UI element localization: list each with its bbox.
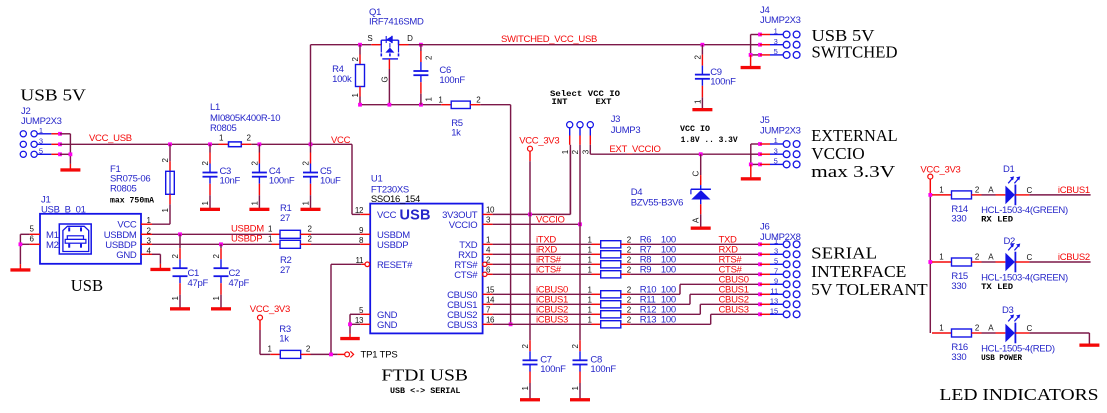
svg-text:G: G: [381, 77, 390, 83]
svg-text:LED INDICATORS: LED INDICATORS: [939, 385, 1098, 404]
svg-text:BZV55-B3V6: BZV55-B3V6: [631, 198, 683, 209]
svg-text:SWITCHED_VCC_USB: SWITCHED_VCC_USB: [501, 34, 597, 45]
svg-text:IRF7416SMD: IRF7416SMD: [369, 17, 424, 28]
svg-text:330: 330: [951, 213, 966, 224]
svg-text:1k: 1k: [451, 127, 461, 138]
svg-text:D4: D4: [631, 187, 643, 198]
svg-text:CBUS3: CBUS3: [447, 320, 477, 331]
svg-text:47pF: 47pF: [229, 278, 250, 289]
svg-text:R0805: R0805: [210, 123, 237, 134]
svg-text:max 750mA: max 750mA: [110, 195, 155, 205]
svg-text:100nF: 100nF: [590, 364, 616, 375]
svg-text:U1: U1: [371, 174, 383, 185]
svg-text:11: 11: [355, 256, 363, 265]
svg-text:15: 15: [486, 285, 495, 294]
svg-text:VCCIO: VCCIO: [536, 214, 565, 225]
svg-text:JUMP2X3: JUMP2X3: [21, 116, 62, 127]
svg-text:3: 3: [39, 136, 43, 145]
svg-text:100nF: 100nF: [710, 77, 736, 88]
svg-text:JUMP2X8: JUMP2X8: [760, 232, 801, 243]
svg-text:SSO16_154: SSO16_154: [371, 194, 420, 205]
svg-text:VCC_3V3: VCC_3V3: [920, 165, 960, 176]
svg-text:FTDI USB: FTDI USB: [381, 366, 468, 385]
svg-text:5V TOLERANT: 5V TOLERANT: [811, 280, 928, 299]
svg-text:3: 3: [774, 146, 778, 155]
svg-text:10nF: 10nF: [220, 176, 241, 187]
svg-text:VCC_USB: VCC_USB: [89, 133, 132, 144]
svg-text:27: 27: [280, 265, 290, 276]
svg-text:max 3.3V: max 3.3V: [811, 162, 896, 181]
svg-text:INTERFACE: INTERFACE: [811, 262, 906, 281]
svg-text:TX LED: TX LED: [981, 282, 1013, 292]
svg-text:USBDP: USBDP: [231, 234, 262, 245]
svg-text:1.8V .. 3.3V: 1.8V .. 3.3V: [681, 136, 738, 145]
svg-text:VCC: VCC: [331, 135, 351, 146]
svg-text:USB 5V: USB 5V: [20, 85, 86, 104]
svg-text:INT: INT: [552, 97, 568, 107]
svg-text:3: 3: [774, 37, 778, 46]
svg-text:J6: J6: [760, 222, 769, 233]
svg-text:EXTERNAL: EXTERNAL: [811, 126, 898, 145]
svg-text:JUMP2X3: JUMP2X3: [760, 125, 801, 136]
svg-text:CTS#: CTS#: [454, 270, 478, 281]
svg-text:12: 12: [355, 206, 364, 215]
svg-text:GND: GND: [116, 250, 137, 261]
svg-text:VCCIO: VCCIO: [449, 220, 478, 231]
svg-text:5: 5: [774, 47, 778, 56]
svg-text:15: 15: [770, 306, 778, 315]
svg-text:D2: D2: [1004, 236, 1016, 247]
svg-text:S: S: [367, 34, 372, 43]
svg-text:CBUS3: CBUS3: [719, 304, 749, 315]
svg-text:5: 5: [774, 256, 778, 265]
svg-text:D: D: [407, 34, 413, 43]
svg-text:VCC IO: VCC IO: [680, 124, 710, 134]
svg-text:VCC_3V3: VCC_3V3: [519, 136, 559, 147]
svg-text:J3: J3: [611, 114, 620, 125]
svg-text:USB POWER: USB POWER: [981, 353, 1023, 363]
svg-text:TP1 TPS: TP1 TPS: [361, 350, 398, 361]
svg-text:C: C: [1027, 253, 1033, 262]
svg-text:iCBUS1: iCBUS1: [1058, 185, 1090, 196]
svg-text:100nF: 100nF: [540, 364, 566, 375]
svg-text:C: C: [1027, 186, 1033, 195]
svg-text:RX LED: RX LED: [981, 215, 1013, 225]
svg-text:13: 13: [770, 296, 778, 305]
svg-text:5: 5: [774, 157, 778, 166]
svg-text:VCC_3V3: VCC_3V3: [250, 304, 290, 315]
svg-text:USB: USB: [71, 276, 103, 295]
svg-text:VCC: VCC: [117, 220, 137, 231]
svg-text:1: 1: [39, 126, 43, 135]
svg-text:13: 13: [355, 316, 364, 325]
svg-text:100nF: 100nF: [269, 176, 295, 187]
svg-text:C: C: [692, 171, 701, 177]
svg-text:7: 7: [774, 266, 778, 275]
svg-text:1: 1: [774, 27, 778, 36]
svg-text:L1: L1: [210, 102, 220, 113]
svg-text:16: 16: [486, 315, 495, 324]
svg-text:M2: M2: [46, 240, 59, 251]
svg-text:10: 10: [486, 205, 495, 214]
svg-text:10uF: 10uF: [320, 176, 341, 187]
svg-text:SWITCHED: SWITCHED: [812, 42, 898, 61]
svg-text:EXT: EXT: [596, 97, 612, 107]
svg-text:330: 330: [951, 352, 966, 363]
svg-text:1k: 1k: [279, 333, 289, 344]
svg-text:11: 11: [770, 286, 778, 295]
svg-text:VCC: VCC: [377, 210, 397, 221]
svg-text:47pF: 47pF: [188, 278, 209, 289]
svg-text:100k: 100k: [332, 74, 352, 85]
svg-text:GND: GND: [377, 320, 398, 331]
svg-text:SERIAL: SERIAL: [811, 244, 877, 263]
svg-text:VCCIO: VCCIO: [811, 144, 865, 163]
svg-text:JUMP3: JUMP3: [611, 125, 641, 136]
svg-text:iCBUS3: iCBUS3: [536, 314, 568, 325]
svg-text:3: 3: [774, 246, 778, 255]
svg-text:D1: D1: [1003, 164, 1015, 175]
svg-text:5: 5: [39, 146, 43, 155]
svg-text:14: 14: [486, 295, 495, 304]
svg-text:iCTS#: iCTS#: [536, 264, 562, 275]
svg-text:EXT_VCCIO: EXT_VCCIO: [609, 144, 660, 155]
svg-text:100nF: 100nF: [439, 75, 465, 86]
svg-text:R0805: R0805: [110, 183, 137, 194]
svg-text:27: 27: [280, 213, 290, 224]
svg-text:9: 9: [774, 276, 778, 285]
svg-text:RESET#: RESET#: [377, 260, 413, 271]
svg-text:USBDP: USBDP: [377, 240, 408, 251]
svg-text:C: C: [1027, 324, 1033, 333]
svg-text:D3: D3: [1002, 305, 1014, 316]
svg-text:1: 1: [774, 136, 778, 145]
svg-text:USB: USB: [400, 208, 431, 224]
svg-text:USB <-> SERIAL: USB <-> SERIAL: [390, 386, 460, 396]
svg-text:USB_B_01: USB_B_01: [41, 205, 86, 216]
svg-text:330: 330: [951, 281, 966, 292]
svg-text:JUMP2X3: JUMP2X3: [760, 15, 801, 26]
svg-text:iCBUS2: iCBUS2: [1058, 252, 1090, 263]
